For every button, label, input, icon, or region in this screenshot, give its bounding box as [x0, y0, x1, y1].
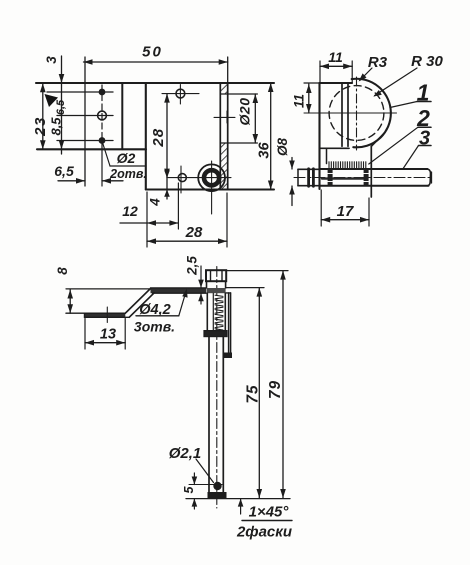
plate vertical line A	[61, 56, 63, 154]
slope diagonal top	[125, 288, 150, 313]
svg-text:13: 13	[100, 327, 116, 343]
plate right inner vertical	[121, 83, 123, 149]
svg-text:3отв.: 3отв.	[134, 319, 175, 335]
svg-text:12: 12	[122, 203, 138, 219]
shaft left part bottom	[298, 185, 320, 187]
plate hole centerline dashed	[101, 85, 103, 147]
upper strip band	[151, 288, 207, 293]
svg-text:3: 3	[419, 128, 430, 150]
O4.2 fraction line	[136, 315, 179, 317]
teeth row	[329, 162, 366, 169]
body right edge	[370, 146, 372, 197]
svg-text:75: 75	[245, 384, 262, 403]
svg-text:1×45°: 1×45°	[249, 504, 290, 521]
bracket leg	[228, 293, 230, 353]
svg-text:11: 11	[292, 94, 307, 108]
dim 2.5 arrows	[200, 266, 202, 288]
ext 79 top	[227, 270, 289, 272]
front view block left edge	[145, 83, 147, 190]
dim 23 line	[42, 83, 44, 149]
shaft bottom line	[320, 185, 429, 187]
dim 28 bottom	[147, 240, 227, 242]
svg-text:6,5: 6,5	[54, 163, 74, 179]
hole edge lines in band	[220, 93, 257, 95]
svg-text:1: 1	[417, 80, 430, 106]
rod left edge lower	[208, 337, 210, 492]
collar bar 2	[312, 169, 315, 186]
hole row line	[189, 484, 222, 486]
strip right segment top	[226, 287, 264, 289]
rod inner line	[212, 293, 214, 330]
svg-text:36: 36	[257, 142, 273, 159]
svg-text:17: 17	[337, 203, 354, 220]
dim 5	[193, 473, 195, 485]
svg-text:R 30: R 30	[411, 53, 443, 70]
lower strip hole tick	[106, 307, 108, 323]
blob arrow mark	[45, 94, 59, 107]
slope diagonal bottom	[129, 293, 154, 317]
bore dark band	[322, 177, 367, 179]
O4.2 leader	[179, 292, 186, 316]
svg-text:50: 50	[142, 44, 163, 61]
part3 leader	[404, 146, 419, 169]
plate hole top filled	[99, 89, 106, 96]
front view block bottom edge	[146, 189, 274, 191]
block right hatched band	[219, 83, 221, 190]
svg-text:8: 8	[55, 267, 70, 275]
dim 50 right extension	[227, 57, 229, 83]
step inner vertical	[326, 148, 328, 163]
plate vertical line B / 50-dim extension	[84, 57, 86, 186]
side slot line 2	[347, 83, 349, 146]
dim 13	[84, 319, 86, 350]
upper strip top extension	[66, 288, 151, 290]
dim 11 top	[319, 61, 321, 83]
svg-text:2,5: 2,5	[185, 256, 200, 276]
knurl column	[215, 295, 223, 330]
side slot line 1	[341, 83, 343, 146]
side view left edge	[318, 83, 320, 189]
front view plate bottom edge	[37, 148, 146, 150]
dim3 down arrow bottom	[59, 140, 65, 149]
svg-text:2фаски: 2фаски	[236, 524, 292, 541]
part1 leader	[390, 102, 417, 108]
plate hole middle open	[98, 111, 107, 120]
boss horizontal centerline	[304, 112, 397, 114]
svg-text:Ø8: Ø8	[275, 138, 290, 157]
big bushing circles	[198, 164, 225, 191]
plate hole bottom filled	[99, 137, 106, 144]
block hole1	[176, 89, 185, 98]
dim 11 left	[304, 82, 320, 84]
rod neck right	[225, 281, 227, 288]
dim 36	[270, 83, 272, 190]
rod cap	[206, 270, 226, 281]
dim 6.5 bottom	[58, 180, 85, 182]
side view top edge	[320, 82, 353, 84]
dim 4	[166, 170, 168, 199]
dim 28 vertical	[166, 94, 168, 178]
dim 50 line	[84, 61, 228, 63]
svg-text:4: 4	[148, 198, 163, 207]
part2 leader	[369, 127, 418, 164]
svg-text:5: 5	[182, 485, 196, 493]
svg-text:79: 79	[267, 380, 284, 399]
O2.1 leader	[196, 459, 214, 483]
step line	[320, 147, 350, 149]
dim 79	[282, 271, 284, 498]
knurl cluster right	[364, 169, 369, 185]
svg-text:28: 28	[150, 128, 167, 148]
svg-text:Ø20: Ø20	[237, 98, 253, 126]
svg-text:6,5: 6,5	[55, 99, 67, 115]
dim3 down arrow top	[59, 74, 65, 83]
rod bottom foot	[208, 492, 227, 498]
knurl cluster left	[328, 169, 333, 185]
dim O8	[291, 158, 293, 170]
block hole2	[178, 174, 186, 182]
collar bar 1	[307, 169, 310, 186]
dim 8	[69, 290, 71, 314]
svg-text:3: 3	[44, 56, 59, 64]
front view top edge	[36, 82, 274, 84]
R3 leader	[360, 68, 372, 80]
right profile diagonal	[371, 134, 383, 146]
rod left edge upper	[206, 293, 208, 331]
bracket leg foot	[224, 353, 232, 359]
clamp band	[204, 331, 227, 337]
rod centerline	[216, 267, 218, 509]
shaft top line	[320, 168, 428, 170]
O2.1 hole dot	[213, 482, 221, 490]
leader O2	[103, 144, 110, 167]
R30 leader	[375, 68, 418, 96]
lower strip band	[85, 313, 126, 317]
svg-text:Ø2,1: Ø2,1	[169, 445, 202, 462]
bottom extension line	[186, 498, 290, 500]
boss outer arc	[352, 79, 391, 148]
svg-text:11: 11	[328, 49, 343, 65]
1x45 leader	[240, 499, 242, 514]
dim 75	[258, 288, 260, 498]
shaft left end cap	[297, 169, 299, 185]
svg-text:R3: R3	[368, 54, 388, 71]
boss vertical centerline	[356, 77, 358, 150]
svg-text:Ø4,2: Ø4,2	[139, 302, 170, 318]
plate hole centerline extension below	[101, 147, 103, 186]
rod neck left	[206, 281, 208, 288]
dim O20	[254, 94, 256, 143]
shaft left part top	[298, 168, 320, 170]
rod crossing strip	[207, 288, 226, 293]
plate hole row line 2	[57, 115, 113, 117]
small cross in band	[214, 116, 235, 118]
strip right segment bottom	[226, 292, 231, 294]
plate hole row line 1	[47, 91, 113, 93]
shaft centerline	[294, 177, 434, 179]
plate hole row line 3	[57, 140, 113, 142]
boss dashed circle	[329, 86, 384, 141]
svg-text:28: 28	[185, 224, 203, 241]
svg-text:Ø2: Ø2	[117, 150, 136, 166]
svg-text:2отв.: 2отв.	[109, 167, 147, 181]
dim 12	[120, 222, 178, 224]
rod right edge upper	[224, 293, 226, 331]
shaft break tick	[431, 172, 433, 183]
1x45 underline	[242, 520, 292, 522]
rod right edge lower	[222, 337, 224, 492]
svg-text:8,5: 8,5	[49, 117, 64, 136]
shaft end	[427, 169, 430, 186]
svg-text:23: 23	[32, 116, 49, 137]
dim 17	[320, 190, 322, 226]
